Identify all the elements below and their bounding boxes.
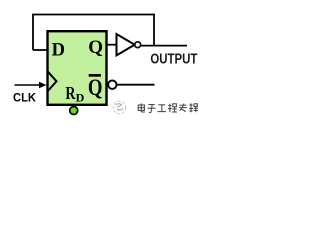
svg-text:D: D [76,91,85,105]
watermark text: 电子工程专辑 [138,103,198,112]
Q-bar output bubble [108,81,116,89]
wire: feedback loop from inverter output to D input [33,15,154,51]
svg-text:R: R [65,85,76,104]
wire: D input segment [33,49,47,51]
clock edge triangle on left edge [48,72,57,91]
flip-flop U1 body [48,31,107,105]
char 程 [168,104,177,113]
svg-text:OUTPUT: OUTPUT [150,51,197,67]
CLK input arrow [15,84,42,86]
svg-text:Q: Q [88,74,103,100]
wire: Q-bar stub [117,84,155,86]
watermark logo circle [113,101,126,114]
svg-text:Q: Q [88,37,103,58]
char 工 [158,105,166,112]
char 子 [148,105,156,113]
inverter bubble [135,42,141,48]
wire: Q output to inverter [107,44,117,46]
svg-text:CLK: CLK [13,91,36,105]
pin label Q-bar overline [89,74,101,77]
inverter U2 triangle [117,34,135,55]
char 辑 [189,103,198,112]
char 专 [179,104,187,112]
wire: inverter output to OUTPUT [141,45,187,47]
char 电 [138,103,145,112]
reset RD active-low indicator bubble (green) [70,107,78,115]
svg-text:D: D [52,41,65,61]
